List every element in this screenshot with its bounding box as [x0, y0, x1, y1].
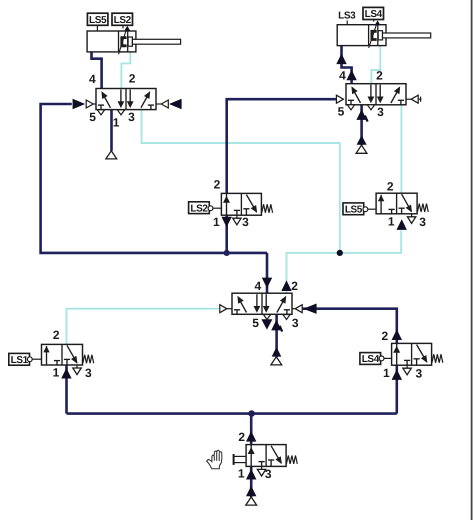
valve LS4 right box: port 1 blocked — [414, 358, 420, 360]
valve V1 left box: port 5 blocked — [100, 105, 102, 110]
valve LS1 3/2 body — [42, 344, 83, 365]
valve LS4 3/2 body — [392, 343, 432, 365]
svg-text:LS2: LS2 — [190, 203, 208, 214]
svg-text:1: 1 — [113, 116, 120, 130]
valve LS2 right box: port 1 blocked — [243, 208, 249, 210]
svg-text:1: 1 — [383, 366, 390, 380]
label box LS2 (cylinder A extended switch) — [112, 13, 133, 25]
svg-text:3: 3 — [242, 215, 249, 229]
start valve push button actuator — [233, 454, 235, 465]
window border right edge — [471, 0, 473, 520]
svg-text:5: 5 — [338, 104, 345, 118]
valve LS1 right box: port 1 blocked — [64, 358, 70, 360]
flow arrow up LS4 port 2 wire — [392, 329, 402, 340]
svg-text:2: 2 — [53, 328, 60, 342]
compressed air source under valve V2 — [356, 145, 367, 153]
svg-text:3: 3 — [419, 215, 426, 229]
flow arrow up into LS4 port 1 — [392, 369, 402, 380]
wire: LS2 port 2 up and right to valve V2 left pilot — [227, 99, 336, 193]
limit-switch label box LS5 — [343, 203, 364, 215]
valve START 3/2 body — [246, 445, 286, 467]
leader line LS4 — [373, 20, 375, 22]
valve LS2 left box: 1-2 passage (open) — [226, 193, 228, 215]
valve V2 right box: port 3 blocked — [400, 100, 402, 105]
valve V3 left pilot connector — [220, 305, 227, 313]
valve V3 exhaust triangle port 5 with outflow arrow — [263, 315, 270, 320]
wire: start valve port 1 down to source — [250, 465, 253, 497]
roller of LS4 — [379, 356, 384, 361]
flow arrows on V2 supply drop — [356, 109, 366, 120]
cylinder A (1A) piston rod — [128, 37, 132, 46]
valve V2 right box: 1-2 passage — [391, 89, 399, 103]
roller of LS2 — [208, 206, 213, 211]
valve V3 right box: 1-2 passage — [277, 298, 285, 312]
svg-text:LS5: LS5 — [89, 15, 107, 26]
valve V3 right box: port 3 blocked — [286, 310, 288, 315]
hand cursor icon — [207, 450, 222, 469]
cylinder B (2A) piston — [368, 25, 370, 46]
svg-text:3: 3 — [377, 105, 384, 119]
valve V2 left box: 2-3 passage — [370, 85, 372, 97]
wire: LS5 port 2 up to valve V2 underside — [400, 105, 402, 193]
valve LS4 left box: 1-2 passage (open) — [396, 343, 398, 365]
wire: pilot bus down into valve V3 port 4 — [266, 253, 269, 293]
flow arrow up into V2 port 4 — [346, 70, 356, 81]
valve LS5 right box: 2-3 passage (open) — [402, 194, 412, 211]
svg-text:3: 3 — [416, 367, 423, 381]
valve V2 right box: 4-5 passage — [379, 85, 381, 97]
valve START right box: port 1 blocked — [268, 459, 274, 461]
limit-switch label box LS4 — [360, 353, 381, 365]
junction B dot — [224, 250, 230, 256]
valve V3 left box: 2-3 passage — [256, 294, 258, 306]
svg-text:4: 4 — [339, 69, 346, 83]
valve LS2 exhaust port 3 triangle — [236, 215, 238, 218]
wire: cylinder A rod-side port to valve V1 port 2 — [121, 52, 130, 89]
leader line LS3 — [346, 20, 348, 24]
roller of LS5 — [363, 207, 368, 212]
flow arrow into V1 left pilot — [73, 99, 86, 109]
valve V3 5/2 body — [232, 293, 292, 314]
flow arrow up into LS1 port 1 — [61, 368, 71, 379]
valve LS1 exhaust port 3 triangle — [76, 365, 78, 368]
svg-text:2: 2 — [387, 179, 394, 193]
wire: main supply bus — [67, 412, 397, 415]
valve V1 left box: 1-4 passage — [103, 94, 111, 108]
valve LS2 return spring — [262, 204, 273, 212]
valve V2 5/2 body — [346, 84, 406, 105]
valve V1 left box: 2-3 passage — [120, 90, 122, 102]
wire: valve V2 supply port 1 to source — [360, 105, 363, 145]
svg-text:2: 2 — [214, 178, 221, 192]
leader line LS2 — [122, 25, 124, 28]
valve START return spring — [286, 456, 297, 464]
wire: LS2 port 1 down to junction B on pilot bus — [225, 215, 228, 253]
wire: start valve port 2 up to bus junction C — [250, 414, 253, 445]
label box LS5 (cylinder A retracted switch) — [87, 13, 108, 25]
compressed air source under valve V3 — [271, 357, 282, 365]
valve LS4 exhaust port 3 triangle — [406, 365, 408, 368]
wire: cylinder A piston-side port to valve V1 port 4 — [92, 52, 102, 89]
valve V1 right box: 4-5 passage — [129, 90, 131, 102]
valve V2 exhaust triangles ports 5 and 3 — [347, 105, 354, 110]
valve LS4 return spring — [432, 354, 443, 362]
valve LS4 right box: 2-3 passage — [417, 345, 427, 362]
sensor slash mark on cylinder B — [369, 24, 377, 48]
svg-text:4: 4 — [89, 72, 96, 86]
cylinder A (1A) body — [87, 31, 136, 52]
valve V3 right box: 4-5 passage — [265, 294, 267, 306]
valve LS2 3/2 body — [221, 193, 261, 215]
svg-text:1: 1 — [388, 215, 395, 229]
valve V2 left box: port 5 blocked — [350, 100, 352, 105]
svg-text:LS1: LS1 — [11, 355, 29, 366]
svg-text:2: 2 — [381, 329, 388, 343]
svg-text:1: 1 — [53, 366, 60, 380]
valve V3 left box: 1-4 passage — [239, 298, 247, 312]
valve LS2 right box: 2-3 passage — [246, 195, 256, 212]
flow arrow up cylinder B piston-side wire — [336, 54, 346, 65]
valve LS5 left box: port 3 blocked — [391, 209, 393, 213]
limit-switch label box LS2 — [189, 202, 210, 214]
wire: valve V1 right-pilot net down to junction A (unpressurized) — [142, 110, 340, 253]
valve LS5 left box: 1-2 passage — [380, 195, 382, 214]
svg-text:3: 3 — [265, 467, 272, 481]
wire: bus up to LS4 port 1 — [395, 365, 398, 413]
svg-text:LS3: LS3 — [338, 11, 356, 22]
svg-text:LS4: LS4 — [362, 354, 380, 365]
flow arrows on start valve supply drop — [246, 469, 256, 480]
wire: valve V3 supply port 1 to source — [275, 314, 278, 357]
wire: junction A to valve V3 port 2 — [287, 253, 340, 293]
wire: junction A to LS5 port 1 — [340, 230, 401, 253]
svg-text:5: 5 — [252, 316, 259, 330]
valve LS1 left box: port 3 blocked — [56, 361, 58, 365]
flow arrows on V3 supply drop — [271, 320, 281, 331]
flow arrow toward V1 right pilot — [169, 99, 182, 109]
valve LS1 left box: 1-2 passage — [46, 346, 48, 365]
valve LS2 left box: port 3 blocked — [236, 210, 238, 215]
valve LS5 exhaust port 3 triangle — [411, 214, 413, 217]
valve V2 left box: 1-4 passage — [353, 89, 361, 103]
svg-text:2: 2 — [129, 72, 136, 86]
valve V1 right pilot connector — [156, 103, 161, 105]
valve V1 right box: 1-2 passage — [141, 94, 149, 108]
cylinder B (2A) piston rod — [378, 31, 382, 40]
flow arrow up out of start valve port 2 — [246, 431, 256, 442]
valve START exhaust port 3 triangle — [261, 466, 263, 469]
flow arrow up into LS5 port 1 — [397, 219, 407, 230]
svg-text:4: 4 — [254, 279, 261, 293]
svg-text:LS4: LS4 — [365, 9, 383, 20]
valve V2 right pilot connector — [406, 98, 411, 100]
valve V3 exhaust triangle port 3 — [283, 315, 290, 320]
svg-text:2: 2 — [238, 430, 245, 444]
compressed air source under valve V1 — [106, 151, 117, 159]
roller of LS1 — [27, 357, 32, 362]
cylinder B (2A) body — [337, 25, 386, 46]
valve START right box: 2-3 passage — [271, 446, 281, 463]
junction A dot — [337, 250, 343, 256]
valve V1 5/2 body — [96, 89, 156, 110]
flow arrow up out of V3 port 2 — [281, 280, 291, 291]
valve LS5 right box: port 1 blocked — [399, 207, 405, 209]
valve LS5 return spring — [417, 204, 428, 212]
valve LS5 3/2 body — [376, 193, 417, 214]
valve START left box: 1-2 passage (open) — [250, 445, 252, 467]
junction C dot on supply bus — [248, 410, 255, 417]
label box LS4 (cylinder B extended switch) — [363, 7, 384, 19]
valve LS1 return spring — [83, 355, 94, 363]
svg-text:5: 5 — [89, 110, 96, 124]
valve LS4 left box: port 3 blocked — [406, 360, 408, 365]
wire: LS1 port 2 to valve V3 left pilot — [67, 309, 220, 345]
svg-text:1: 1 — [238, 467, 245, 481]
valve V3 left box: port 5 blocked — [236, 310, 238, 315]
svg-text:1: 1 — [213, 215, 220, 229]
cylinder A (1A) piston — [118, 31, 120, 52]
svg-text:LS2: LS2 — [114, 15, 132, 26]
wire: cylinder B rod-side port to valve V2 port 2 — [371, 46, 380, 84]
valve START left box: port 3 blocked — [261, 462, 263, 467]
compressed air source under start valve — [246, 497, 257, 505]
svg-text:3: 3 — [85, 366, 92, 380]
valve LS1 right box: 2-3 passage (open) — [67, 345, 77, 362]
limit-switch label box LS1 — [9, 353, 30, 365]
sensor slash mark on cylinder A — [119, 30, 127, 54]
valve V2 left pilot connector — [336, 95, 343, 103]
svg-text:LS5: LS5 — [345, 205, 363, 216]
valve V2 right pilot open stub — [418, 98, 421, 100]
wire: pilot bus junction B left and up to valve V1 left pilot — [41, 104, 267, 253]
valve V1 left pilot connector — [94, 103, 97, 105]
wire: valve V3 port 2 pilot branch to LS4 port 2 — [302, 309, 397, 344]
svg-text:3: 3 — [292, 316, 299, 330]
flow arrow down into LS2 port 1 wire — [221, 217, 231, 228]
wire: valve V1 supply port 1 to source — [110, 110, 113, 151]
valve V1 right box: port 3 blocked — [150, 105, 152, 110]
flow arrow into V3 right pilot — [303, 304, 316, 314]
leader line LS5 — [96, 25, 98, 31]
svg-text:3: 3 — [128, 110, 135, 124]
valve V3 right pilot connector — [292, 308, 295, 310]
wire: cylinder B piston-side port to valve V2 port 4 — [342, 46, 352, 84]
flow arrow down into V3 port 4 — [262, 278, 272, 289]
wire: bus up to LS1 port 1 — [65, 365, 68, 414]
svg-text:2: 2 — [291, 279, 298, 293]
valve V1 exhaust triangles ports 5 and 3 — [97, 110, 104, 115]
svg-text:2: 2 — [376, 69, 383, 83]
